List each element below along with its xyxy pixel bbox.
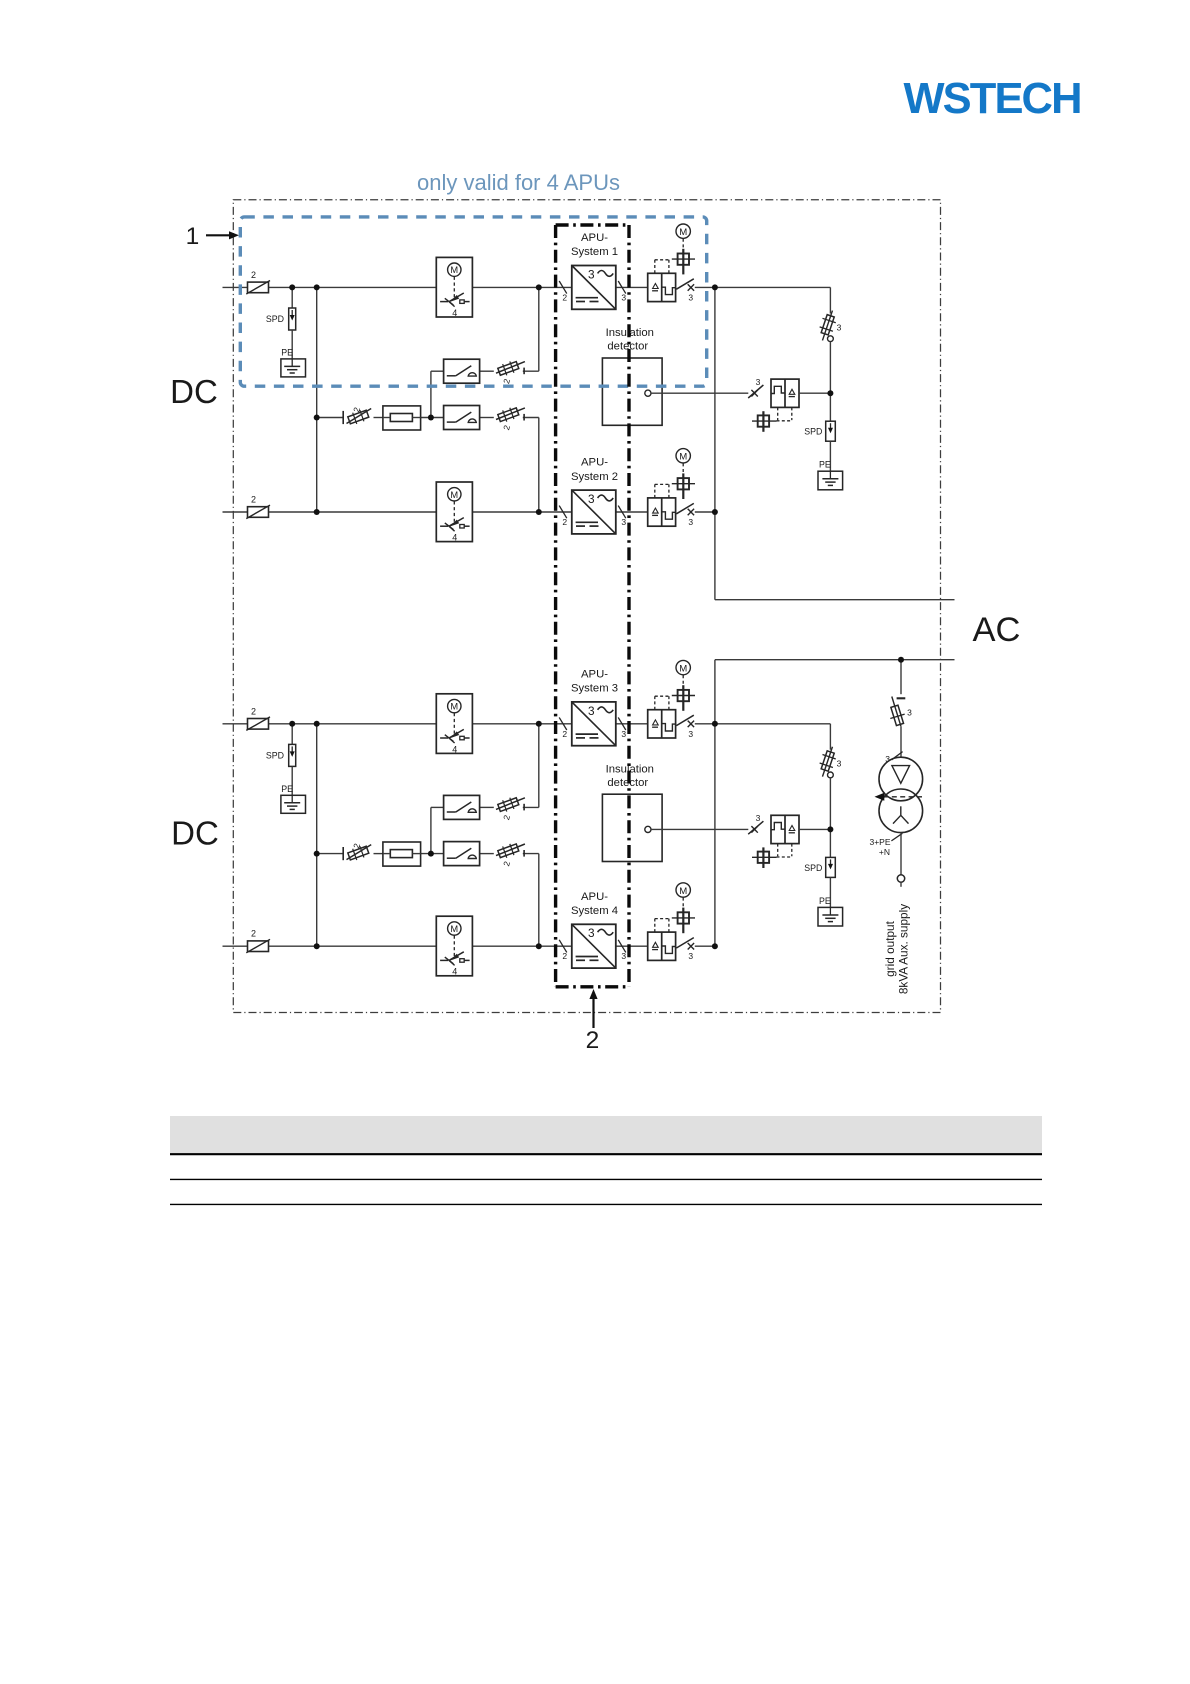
svg-text:SPD: SPD <box>804 427 822 437</box>
wire: DC input system 1 <box>223 286 248 288</box>
svg-text:2: 2 <box>251 270 256 280</box>
SPD arrester SPD-AC top <box>804 393 835 471</box>
svg-text:3+PE: 3+PE <box>869 837 890 847</box>
svg-text:2: 2 <box>562 729 567 739</box>
node: system1/AC collector junction <box>712 284 718 290</box>
svg-text:3: 3 <box>907 708 912 718</box>
svg-text:3: 3 <box>621 951 626 961</box>
wire: system 3 DC line to motor switch <box>269 723 437 725</box>
node: system1/SPD junction <box>289 284 295 290</box>
wire: system 3 line motor switch to inverter <box>472 723 571 725</box>
svg-text:2: 2 <box>562 517 567 527</box>
contactor/overload block on detector 1 line <box>771 379 799 421</box>
conductor-count mark "2" inverter 2 DC side <box>559 506 567 527</box>
motor drive M1 with position indicator <box>672 224 695 274</box>
wire: detector 2 output <box>651 828 748 830</box>
APU sub-assembly boundary (black dash-dot) <box>556 225 629 987</box>
wire: system 4 line motor switch to inverter <box>472 945 571 947</box>
wire: aux fuse to transformer <box>900 726 902 757</box>
svg-text:WSTECH: WSTECH <box>904 75 1081 123</box>
conductor-count mark "2" inverter 4 DC side <box>559 940 567 961</box>
svg-text:PE: PE <box>819 460 831 470</box>
wire: DC bus top group <box>316 287 318 512</box>
APU-System 1 label <box>571 232 618 258</box>
motor drive M4 with position indicator <box>672 883 695 933</box>
switch-fuse "2" bypass A top group <box>496 359 525 384</box>
contactor/overload block K1 <box>648 260 676 302</box>
svg-text:APU-: APU- <box>581 668 608 680</box>
fuse F3 (DC input) <box>246 706 270 730</box>
switch-fuse "2" bypass B top group <box>496 406 525 431</box>
svg-text:3: 3 <box>837 323 842 333</box>
switch-fuse (3) on AC branch 2 <box>816 724 842 830</box>
switch contact with blade (3-pole) row 2 <box>676 503 694 527</box>
svg-text:3: 3 <box>688 951 693 961</box>
svg-text:APU-: APU- <box>581 457 608 469</box>
SPD arrester SPD3 <box>266 724 296 796</box>
motor drive M3 with position indicator <box>672 660 695 710</box>
svg-text:APU-: APU- <box>581 891 608 903</box>
svg-text:4: 4 <box>452 533 457 543</box>
svg-text:M: M <box>679 663 687 674</box>
wire: system 4 contactor to AC collector <box>695 945 715 947</box>
motor-operated DC disconnect switch Q1 <box>436 257 472 318</box>
aux switch-fuse (3) <box>887 697 912 727</box>
node: system2/bus junction <box>314 509 320 515</box>
PE ground SPD-AC top <box>818 460 843 490</box>
node: system1/bypass junction <box>536 284 542 290</box>
node: detector2/SPD junction <box>827 826 833 832</box>
svg-text:M: M <box>450 924 458 934</box>
svg-text:+N: +N <box>879 847 890 857</box>
switch contact with blade (3-pole) row 3 <box>676 715 694 739</box>
svg-text:3: 3 <box>588 926 595 940</box>
motor-operated DC disconnect switch Q2 <box>436 482 472 543</box>
svg-text:PE: PE <box>281 784 293 794</box>
wire: system 4 inverter to contactor <box>616 945 648 947</box>
wire: system 3 line to AC branch corner <box>715 723 831 725</box>
APU-System 2 label <box>571 457 618 483</box>
svg-text:8kVA Aux. supply: 8kVA Aux. supply <box>897 904 911 994</box>
svg-text:2: 2 <box>251 929 256 939</box>
node: resistor output top <box>428 415 434 421</box>
switch-fuse "2" precharge input top group <box>343 406 371 426</box>
svg-text:3: 3 <box>588 267 595 281</box>
conductor-count mark 3 above transformer <box>885 752 902 764</box>
table header bar <box>170 1116 1042 1154</box>
switch-fuse "2" precharge input bottom group <box>343 842 371 862</box>
svg-text:grid output: grid output <box>883 920 897 976</box>
wire: detector 1 line to SPD junction <box>799 392 830 394</box>
inverter U3 (3~ / =) <box>572 702 616 746</box>
svg-text:2: 2 <box>562 292 567 302</box>
node: system2/AC collector junction <box>712 509 718 515</box>
conductor-count mark "3" inverter 1 AC side <box>618 281 626 302</box>
svg-text:DC: DC <box>171 815 219 852</box>
wire: system 2 inverter to contactor <box>616 511 648 513</box>
motor-operated DC disconnect switch Q4 <box>436 916 472 977</box>
fuse F2 (DC input) <box>246 495 270 519</box>
node: detector1/SPD junction <box>827 390 833 396</box>
svg-text:3: 3 <box>621 729 626 739</box>
wire: DC input system 3 <box>223 723 248 725</box>
svg-text:2: 2 <box>586 1027 600 1054</box>
contactor/overload block on detector 2 line <box>771 815 799 857</box>
wire: AC collector bottom group <box>714 660 716 947</box>
wire: DC input system 4 <box>223 945 248 947</box>
svg-text:4: 4 <box>452 744 457 754</box>
svg-text:SPD: SPD <box>804 863 822 873</box>
conductor-count mark "3" inverter 4 AC side <box>618 940 626 961</box>
callout arrow 1 <box>186 223 239 250</box>
node: system1/bus junction <box>314 284 320 290</box>
svg-text:M: M <box>679 227 687 238</box>
SPD arrester SPD-AC bottom <box>804 829 835 907</box>
node: system4/bus junction <box>314 943 320 949</box>
APU-System 4 label <box>571 891 618 917</box>
insulation detector 2 label <box>606 763 654 789</box>
svg-text:APU-: APU- <box>581 232 608 244</box>
outer cabinet boundary (dash-dot frame) <box>233 200 940 1013</box>
switch-fuse (3) on AC branch 1 <box>816 287 842 393</box>
position indicator below detector 1 contactor <box>752 411 777 432</box>
svg-text:PE: PE <box>819 896 831 906</box>
svg-text:SPD: SPD <box>266 750 284 760</box>
node: system3/SPD junction <box>289 721 295 727</box>
blue dashed boundary (4-APU option) <box>240 217 706 386</box>
node: precharge tap bottom <box>314 851 320 857</box>
svg-text:System 4: System 4 <box>571 905 618 917</box>
fuse F4 (DC input) <box>246 929 270 953</box>
wire: precharge row top group <box>317 417 344 419</box>
svg-text:2: 2 <box>562 951 567 961</box>
SPD arrester SPD1 <box>266 287 296 359</box>
label: 8kVA Aux. supply grid output <box>883 904 911 994</box>
svg-text:DC: DC <box>170 373 218 410</box>
conductor-count mark "2" inverter 1 DC side <box>559 281 567 302</box>
wire: DC bus bottom group <box>316 724 318 946</box>
inverter U1 (3~ / =) <box>572 266 616 310</box>
wire: detector 1 output <box>651 392 748 394</box>
switch-fuse "2" bypass B bottom group <box>496 842 525 867</box>
bypass contactor box K-bypass A bottom <box>444 795 480 819</box>
svg-text:3: 3 <box>837 759 842 769</box>
bypass contactor box K-bypass A top <box>444 359 480 383</box>
svg-text:System 2: System 2 <box>571 471 618 483</box>
svg-text:3: 3 <box>588 704 595 718</box>
svg-text:2: 2 <box>251 706 256 716</box>
inverter U4 (3~ / =) <box>572 924 616 968</box>
svg-text:M: M <box>450 702 458 712</box>
wire: system 3 contactor to AC collector <box>695 723 715 725</box>
bypass contactor box K-bypass B bottom <box>444 842 480 866</box>
motor drive M2 with position indicator <box>672 449 695 499</box>
wire: system 1 DC line to motor switch <box>269 286 437 288</box>
wire: system 1 line motor switch to inverter <box>472 286 571 288</box>
conductor-count mark "3" inverter 3 AC side <box>618 717 626 738</box>
motor-operated DC disconnect switch Q3 <box>436 694 472 755</box>
svg-text:3: 3 <box>588 492 595 506</box>
APU-System 3 label <box>571 668 618 694</box>
svg-text:M: M <box>450 265 458 275</box>
svg-text:4: 4 <box>452 308 457 318</box>
svg-text:3: 3 <box>756 813 761 823</box>
node: system3/AC collector junction <box>712 721 718 727</box>
svg-text:2: 2 <box>251 495 256 505</box>
wire: system 2 line motor switch to inverter <box>472 511 571 513</box>
wire: precharge upper branch top group <box>430 371 432 417</box>
conductor-count mark "2" inverter 3 DC side <box>559 717 567 738</box>
node: system4/bypass junction <box>536 943 542 949</box>
fuse F1 (DC input) <box>246 270 270 294</box>
svg-text:1: 1 <box>186 223 200 250</box>
table row line 2 <box>170 1203 1042 1205</box>
svg-text:3: 3 <box>621 292 626 302</box>
table row line 1 <box>170 1178 1042 1180</box>
svg-text:M: M <box>450 490 458 500</box>
wire: DC input system 2 <box>223 511 248 513</box>
wire: system 1 inverter to contactor <box>616 286 648 288</box>
svg-text:SPD: SPD <box>266 314 284 324</box>
contactor/overload block K2 <box>648 484 676 526</box>
wire: system 1 contactor to AC collector <box>695 286 715 288</box>
breaker contact (3) on detector 1 line <box>748 377 763 398</box>
position indicator below detector 2 contactor <box>752 847 777 868</box>
node: system2/bypass junction <box>536 509 542 515</box>
insulation detector 1 label <box>606 327 654 353</box>
wire: precharge upper branch bottom group <box>430 807 432 853</box>
contactor/overload block K4 <box>648 919 676 961</box>
wire: system 3 inverter to contactor <box>616 723 648 725</box>
node: aux supply tap junction <box>898 657 904 663</box>
wire: system 1 line to AC branch corner <box>715 286 831 288</box>
wire: AC collector top group <box>714 287 716 599</box>
svg-text:M: M <box>679 452 687 463</box>
switch-fuse "2" bypass A bottom group <box>496 796 525 821</box>
PE ground SPD-AC bottom <box>818 896 843 926</box>
inverter U2 (3~ / =) <box>572 490 616 534</box>
switch contact with blade (3-pole) row 1 <box>676 279 694 303</box>
svg-text:only valid for 4 APUs: only valid for 4 APUs <box>417 170 620 195</box>
insulation detector 1 box <box>602 358 662 425</box>
node: precharge tap top <box>314 415 320 421</box>
svg-text:System 1: System 1 <box>571 246 618 258</box>
wire: system 2 contactor to AC collector <box>695 511 715 513</box>
svg-text:3: 3 <box>621 517 626 527</box>
svg-text:3: 3 <box>688 517 693 527</box>
node: system3/bus junction <box>314 721 320 727</box>
table header underline <box>170 1153 1042 1155</box>
conductor-count mark "3" inverter 2 AC side <box>618 506 626 527</box>
svg-text:4: 4 <box>452 967 457 977</box>
bypass contactor box K-bypass B top <box>444 406 480 430</box>
node: resistor output bottom <box>428 851 434 857</box>
wire: transformer to aux output terminal <box>900 833 902 875</box>
breaker contact (3) on detector 2 line <box>748 813 763 834</box>
wire: bypass risers bottom group <box>538 724 540 808</box>
svg-text:3: 3 <box>756 377 761 387</box>
svg-text:System 3: System 3 <box>571 683 618 695</box>
conductor mark 3+PE+N below transformer <box>869 833 902 857</box>
insulation detector 2 box <box>602 794 662 861</box>
wire: system 4 DC line to motor switch <box>269 945 437 947</box>
wire: bypass risers top group <box>538 287 540 371</box>
pre-charge resistor R1 <box>383 406 421 430</box>
svg-text:M: M <box>679 886 687 897</box>
pre-charge resistor R2 <box>383 842 421 866</box>
wire: precharge row bottom group <box>317 853 344 855</box>
svg-text:PE: PE <box>281 348 293 358</box>
PE ground SPD1 <box>281 348 306 377</box>
aux output terminal <box>897 875 904 887</box>
switch contact with blade (3-pole) row 4 <box>676 938 694 962</box>
svg-text:AC: AC <box>973 611 1021 649</box>
wire: system 2 DC line to motor switch <box>269 511 437 513</box>
callout arrow 2 <box>586 989 600 1054</box>
svg-text:3: 3 <box>688 292 693 302</box>
wire: aux supply tap <box>900 660 902 695</box>
wire: detector 2 line to SPD junction <box>799 828 830 830</box>
node: system4/AC collector junction <box>712 943 718 949</box>
PE ground SPD3 <box>281 784 306 813</box>
contactor/overload block K3 <box>648 696 676 738</box>
transformer T1 (delta-wye) <box>875 757 925 832</box>
node: system3/bypass junction <box>536 721 542 727</box>
svg-text:3: 3 <box>688 729 693 739</box>
